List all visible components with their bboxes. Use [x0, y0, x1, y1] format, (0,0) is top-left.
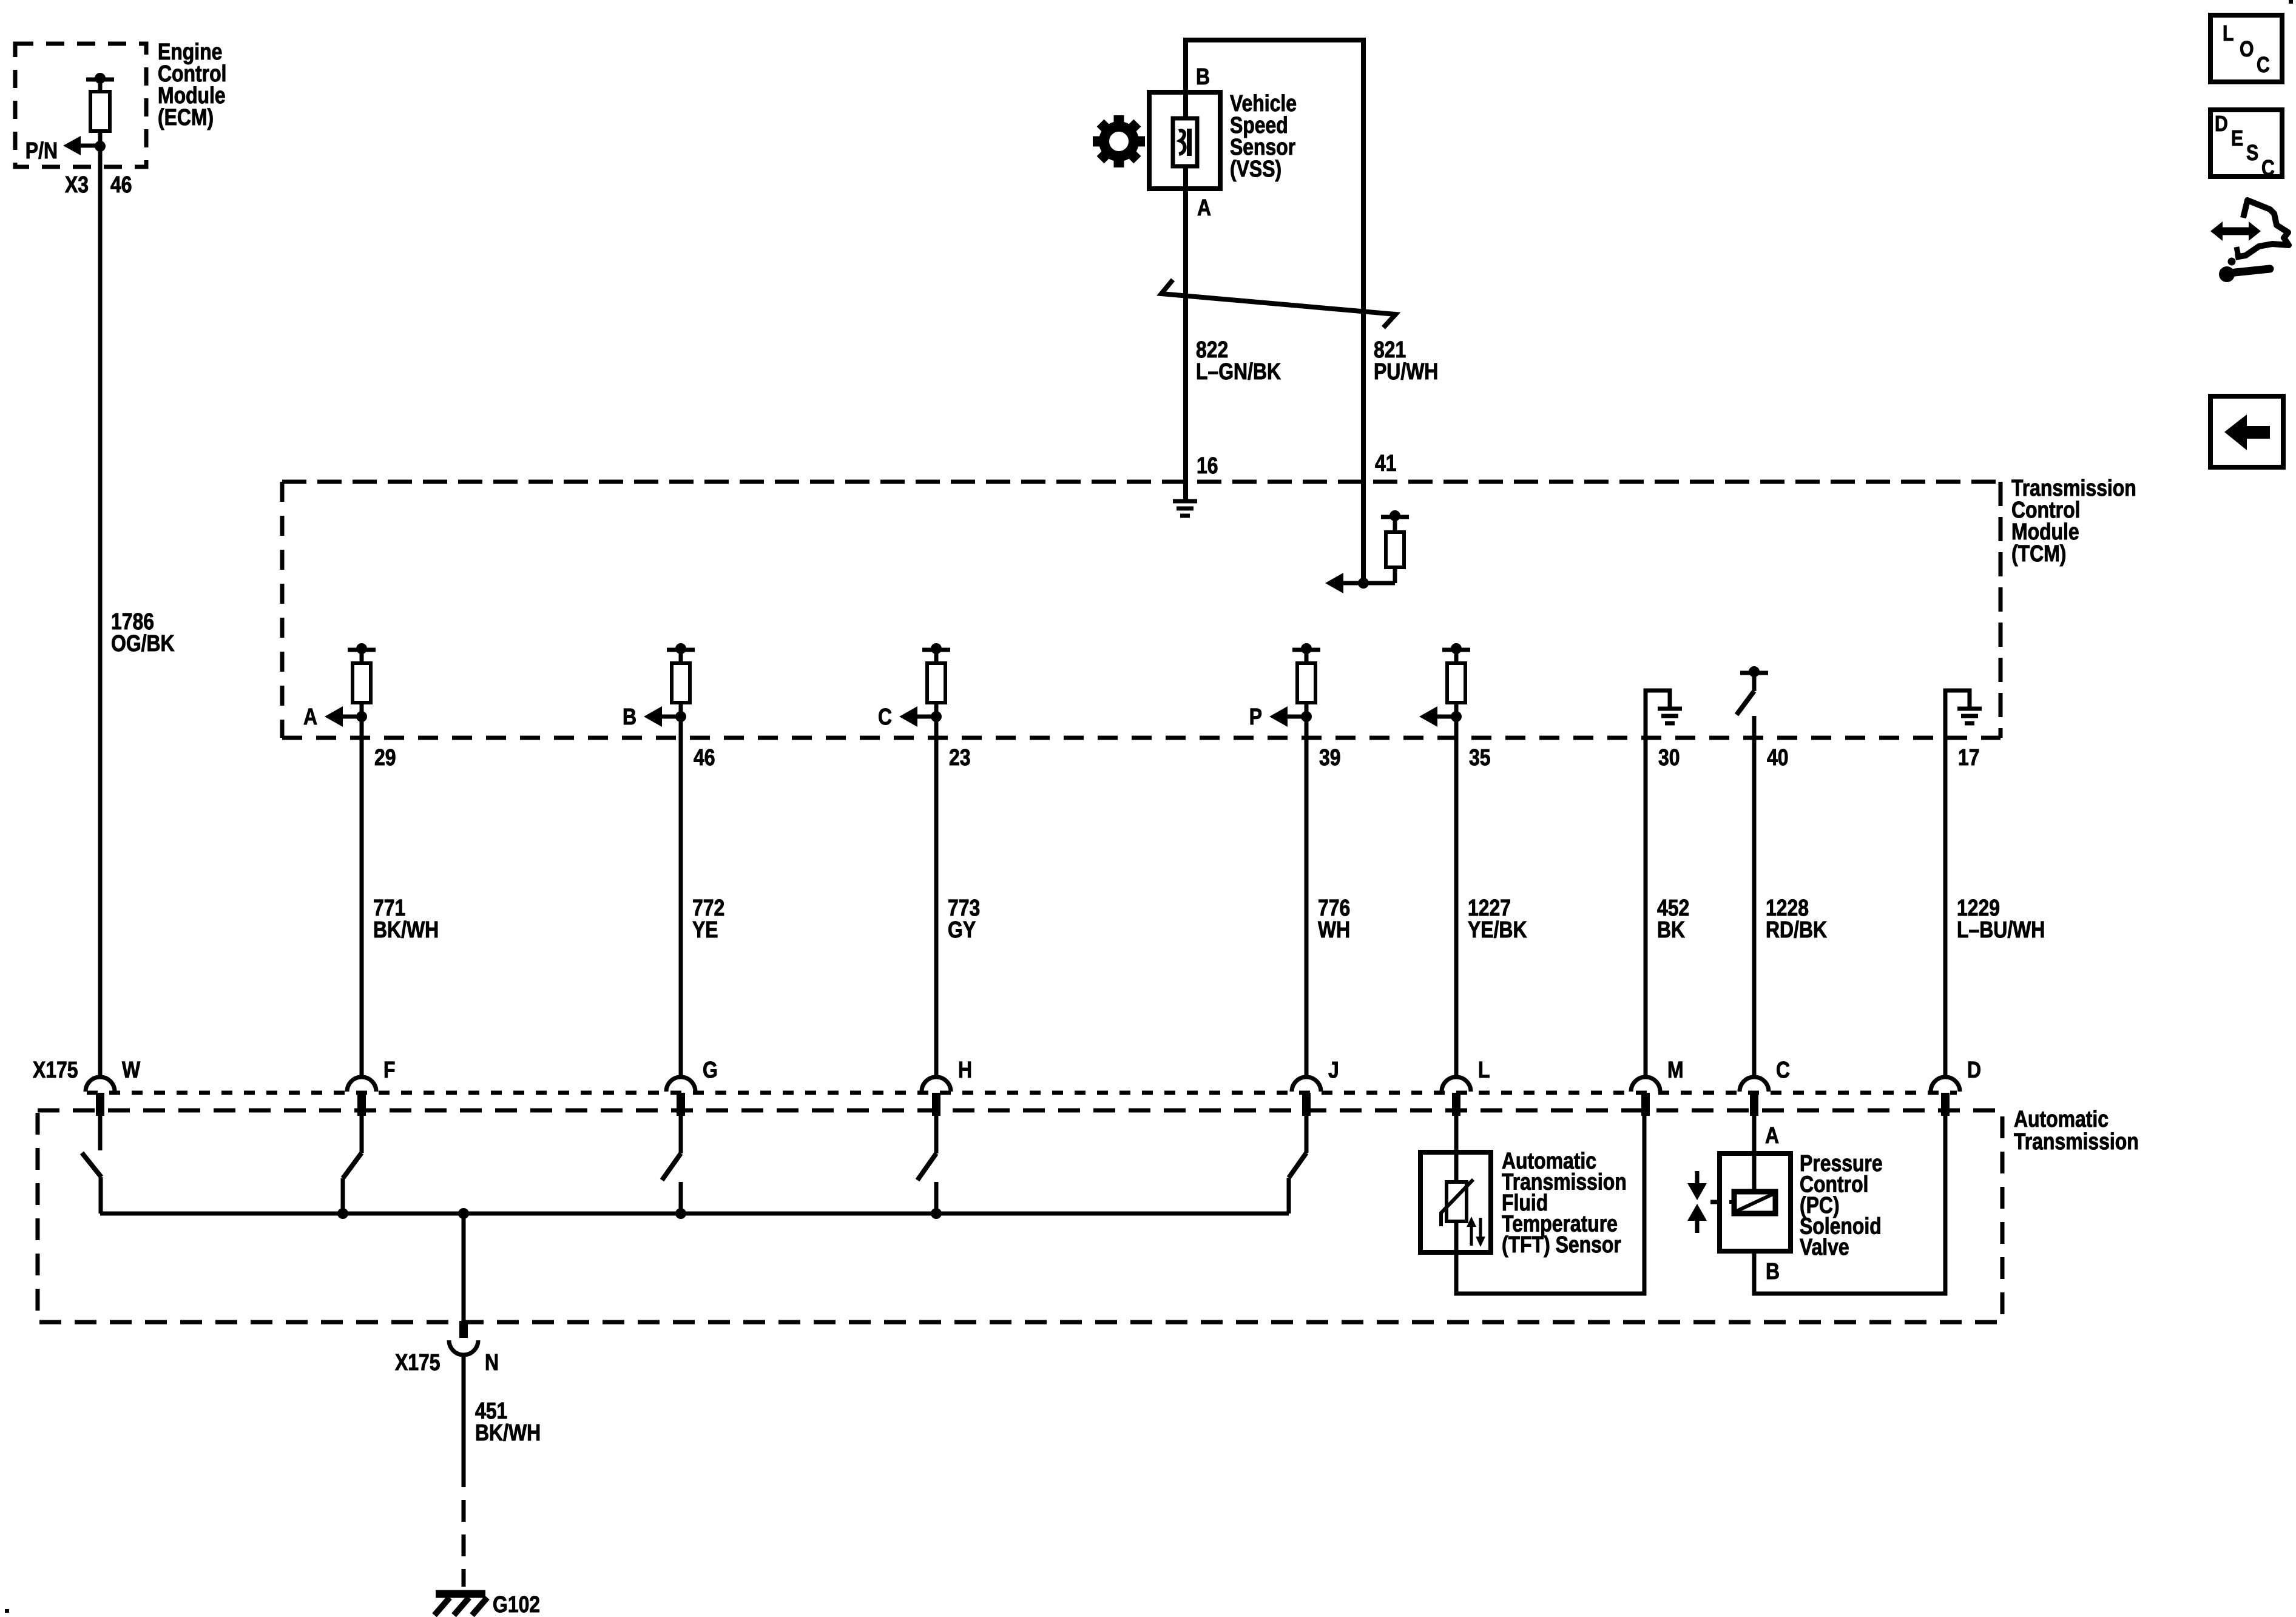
Transmission Control Module (TCM) dashed box: [282, 480, 2001, 484]
wire circuit 776 from TCM down to X175: [1305, 717, 1309, 1078]
pressure switch at H: [934, 1116, 939, 1153]
chassis ground G102: [436, 1590, 485, 1598]
svg-text:G: G: [703, 1057, 718, 1082]
wire: pin 29 arrow line: [342, 715, 362, 719]
wire: pin41 resistor bottom to junction: [1393, 567, 1397, 583]
svg-text:C: C: [2261, 157, 2275, 181]
svg-text:E: E: [2231, 127, 2243, 151]
svg-text:29: 29: [374, 744, 396, 770]
node: junction dot on 821 wire: [1358, 578, 1369, 589]
back arrow: [2224, 414, 2270, 450]
wire: X175 L down into TFT sensor: [1454, 1116, 1459, 1182]
svg-text:A: A: [303, 704, 317, 729]
svg-text:L–BU/WH: L–BU/WH: [1957, 917, 2045, 942]
svg-text:G102: G102: [493, 1592, 540, 1617]
arrow at pin 39: [1269, 706, 1288, 727]
valve symbol (two triangles): [1695, 1171, 1700, 1184]
svg-text:L–GN/BK: L–GN/BK: [1196, 359, 1281, 384]
svg-text:M: M: [1667, 1057, 1684, 1082]
wiring repair icon: double arrow: [2221, 228, 2250, 235]
wire: X175 C down into PC solenoid: [1752, 1116, 1757, 1192]
wire circuit 773 from TCM down to X175: [934, 717, 939, 1078]
Automatic Transmission Fluid Temperature (TFT) Sensor box: [1420, 1152, 1491, 1252]
resistor at TCM pin 41: [1381, 515, 1409, 519]
Pressure Control (PC) Solenoid Valve box: [1720, 1153, 1791, 1251]
connector X175 cavity J: [1292, 1077, 1321, 1092]
svg-text:RD/BK: RD/BK: [1766, 917, 1827, 942]
TCM pin 40 internal switch: [1740, 671, 1768, 675]
connector X175 cavity C: [1740, 1077, 1769, 1092]
LOC icon box: [2210, 15, 2282, 82]
arrow at pin 46: [644, 706, 662, 727]
crossing slash (wires cross, no splice): [1161, 280, 1396, 328]
resistor at TCM pin 23: [922, 648, 950, 652]
connector X175 cavity F: [347, 1077, 376, 1092]
svg-text:P/N: P/N: [25, 138, 58, 163]
svg-text:B: B: [1766, 1258, 1780, 1284]
svg-text:D: D: [1967, 1057, 1981, 1082]
connector X175 cavity G: [666, 1077, 695, 1092]
svg-text:YE/BK: YE/BK: [1468, 917, 1527, 942]
svg-text:B: B: [1196, 64, 1210, 89]
svg-text:L: L: [1478, 1057, 1490, 1082]
DESC icon box: [2210, 110, 2282, 177]
svg-text:OG/BK: OG/BK: [111, 630, 175, 656]
svg-text:B: B: [623, 704, 636, 729]
svg-text:P: P: [1249, 704, 1262, 729]
svg-text:BK/WH: BK/WH: [475, 1420, 541, 1445]
svg-text:J: J: [1328, 1057, 1339, 1082]
arrow at pin 23: [899, 706, 917, 727]
svg-text:X3: X3: [65, 172, 89, 197]
svg-text:30: 30: [1658, 744, 1680, 770]
svg-text:(TCM): (TCM): [2011, 541, 2066, 566]
svg-text:23: 23: [949, 744, 971, 770]
TFT arrows up/down: [1470, 1226, 1473, 1246]
svg-text:PU/WH: PU/WH: [1374, 359, 1438, 384]
svg-text:C: C: [878, 704, 892, 729]
wire circuit 771 from TCM down to X175: [360, 717, 364, 1078]
resistor at TCM pin 39: [1292, 648, 1320, 652]
gear icon (speed sensor rotor): [1093, 115, 1145, 167]
node: junction dot at G: [675, 1208, 686, 1219]
ground at TCM pin 16: [1173, 499, 1197, 504]
wire: TFT bottom loop to X175 M: [1456, 1116, 1644, 1294]
solenoid left stub: [1729, 1200, 1734, 1204]
arrow at pin 35: [1419, 706, 1437, 727]
svg-text:C: C: [2257, 53, 2270, 78]
svg-text:Automatic: Automatic: [2014, 1106, 2109, 1132]
svg-text:17: 17: [1958, 744, 1980, 770]
svg-text:C: C: [1776, 1057, 1790, 1082]
wire: pin 46 arrow line: [661, 715, 681, 719]
arrow at pin 41: [1325, 573, 1343, 593]
wire circuit 1228 from TCM down to X175: [1752, 716, 1757, 1078]
resistor at TCM pin 29: [348, 648, 376, 652]
dashed continuation of wire 451: [462, 1500, 466, 1587]
svg-text:(VSS): (VSS): [1230, 156, 1281, 181]
wire: pin 46 resistor to junction: [679, 703, 683, 719]
svg-text:(ECM): (ECM): [158, 104, 214, 130]
pressure switch at J: [1305, 1116, 1309, 1153]
resistor at TCM pin 35: [1442, 648, 1470, 652]
connector X175 cavity L: [1442, 1077, 1471, 1092]
svg-text:N: N: [485, 1349, 499, 1375]
node: junction dot pin 35: [1451, 711, 1462, 722]
svg-text:39: 39: [1319, 744, 1341, 770]
node: junction dot at F: [337, 1208, 348, 1219]
resistor at TCM pin 46: [667, 648, 695, 652]
pressure switch at F: [360, 1116, 364, 1153]
wire: pin 23 resistor to junction: [934, 703, 939, 719]
X175 harness connector dotted line: [87, 1091, 1957, 1095]
pressure switch at W: [98, 1116, 103, 1150]
svg-text:D: D: [2215, 112, 2228, 137]
wire: common return down to X175 N: [462, 1214, 466, 1321]
common switch return wire: [100, 1212, 1289, 1216]
node: junction dot pin 46: [675, 711, 686, 722]
wire circuit 772 from TCM down to X175: [679, 717, 683, 1078]
VSS inner pickup element box: [1173, 118, 1197, 166]
wire: pin 29 resistor to junction: [360, 703, 364, 719]
svg-text:L: L: [2223, 22, 2234, 46]
node: junction dot at N drop: [458, 1208, 469, 1219]
pressure switch at G: [679, 1116, 683, 1153]
page corner mark top-right: [2289, 0, 2293, 4]
wire: VSS pin A down to TCM pin 16 ground: [1183, 166, 1188, 501]
wire: junction to P/N arrow: [81, 144, 100, 148]
Automatic Transmission dashed box: [38, 1110, 2002, 1322]
thermistor element (TFT): [1447, 1182, 1467, 1221]
svg-text:A: A: [1765, 1122, 1779, 1148]
svg-text:S: S: [2246, 141, 2258, 166]
VSS pickup coil squiggle and bar: [1179, 130, 1185, 154]
svg-text:Transmission: Transmission: [2014, 1129, 2139, 1154]
svg-text:Valve: Valve: [1800, 1234, 1849, 1260]
wire: ECM resistor to junction: [98, 131, 103, 149]
svg-text:BK: BK: [1657, 917, 1685, 942]
wire: pin 41 horizontal: [1343, 581, 1395, 586]
connector X175 cavity W: [86, 1077, 115, 1092]
solenoid coil element: [1734, 1192, 1775, 1214]
svg-text:O: O: [2240, 38, 2254, 62]
resistor inside ECM (P/N pull-up): [86, 78, 114, 82]
node: junction dot pin 39: [1301, 711, 1312, 722]
svg-text:BK/WH: BK/WH: [373, 917, 439, 942]
connector X175 cavity H: [922, 1077, 951, 1092]
svg-text:F: F: [383, 1057, 395, 1082]
svg-text:X175: X175: [33, 1057, 78, 1082]
connector X175 cavity N: [459, 1321, 468, 1338]
svg-text:35: 35: [1469, 744, 1491, 770]
Vehicle Speed Sensor (VSS) box: [1149, 92, 1220, 189]
TCM pin 17 internal ground hook: [1945, 690, 1970, 738]
svg-text:46: 46: [694, 744, 715, 770]
wire circuit 1227 from TCM down to X175: [1454, 717, 1459, 1078]
page corner dot: [5, 1609, 9, 1613]
node: junction dot pin 29: [356, 711, 367, 722]
wire: PC bottom loop to X175 D: [1754, 1116, 1945, 1294]
Engine Control Module (ECM) dashed box: [15, 44, 146, 167]
svg-text:YE: YE: [692, 917, 718, 942]
svg-text:41: 41: [1375, 450, 1397, 476]
svg-text:40: 40: [1767, 744, 1789, 770]
wire circuit 452 from TCM down to X175: [1644, 738, 1648, 1078]
wire: pin 23 arrow line: [917, 715, 936, 719]
back arrow icon box: [2210, 396, 2283, 467]
P/N signal arrow: [63, 136, 81, 155]
wire: VSS pin B up and over to 821 branch: [1186, 40, 1363, 581]
svg-text:GY: GY: [948, 917, 976, 942]
wire: pin 35 resistor to junction: [1454, 703, 1459, 719]
wire: pin 35 arrow line: [1437, 715, 1456, 719]
wire: pin 39 arrow line: [1287, 715, 1306, 719]
wiring repair icon: outline: [2235, 200, 2289, 257]
wire 1786 from ECM pin 46 down to X175 W: [98, 146, 103, 1078]
node: junction dot pin 23: [931, 711, 942, 722]
wiring repair icon: wrench: [2219, 266, 2235, 282]
svg-text:X175: X175: [395, 1349, 441, 1375]
wire circuit 1229 from TCM down to X175: [1943, 738, 1948, 1078]
node: ECM junction dot: [95, 141, 106, 152]
arrow at pin 29: [325, 706, 343, 727]
connector X175 cavity D: [1931, 1077, 1960, 1092]
svg-text:46: 46: [110, 172, 132, 197]
connector X175 cavity M: [1631, 1077, 1660, 1092]
TCM pin 30 internal ground hook: [1646, 690, 1670, 738]
svg-text:(TFT) Sensor: (TFT) Sensor: [1502, 1232, 1621, 1257]
svg-text:A: A: [1197, 195, 1211, 220]
node: junction dot at H: [931, 1208, 942, 1219]
svg-text:WH: WH: [1318, 917, 1350, 942]
wire: pin 39 resistor to junction: [1305, 703, 1309, 719]
wire 451 to ground: [462, 1355, 466, 1487]
svg-text:W: W: [122, 1057, 141, 1082]
svg-text:16: 16: [1197, 453, 1218, 478]
svg-text:H: H: [958, 1057, 972, 1082]
